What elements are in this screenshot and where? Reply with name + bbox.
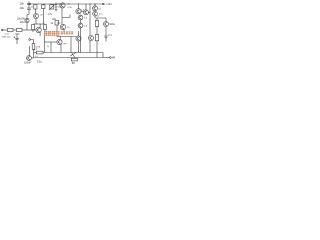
svg-text:1k: 1k	[51, 23, 54, 25]
svg-text:47u: 47u	[40, 14, 44, 16]
svg-text:R9: R9	[64, 44, 68, 46]
svg-text:100u: 100u	[109, 23, 115, 26]
svg-text:+42V: +42V	[106, 3, 112, 6]
svg-text:1k: 1k	[47, 46, 50, 48]
svg-text:4.7k: 4.7k	[48, 14, 53, 16]
svg-text:220k 10u: 220k 10u	[2, 36, 12, 38]
svg-text:0.1u: 0.1u	[37, 61, 42, 64]
svg-text:0.3u: 0.3u	[68, 7, 73, 9]
svg-text:10k: 10k	[20, 6, 25, 10]
svg-text:4.7: 4.7	[34, 49, 38, 52]
svg-text:2k: 2k	[67, 27, 70, 29]
svg-text:47u: 47u	[99, 13, 103, 15]
svg-text:0.3: 0.3	[84, 18, 88, 20]
svg-text:0.5: 0.5	[97, 16, 101, 18]
svg-text:4.7u: 4.7u	[5, 33, 10, 35]
svg-text:0.1: 0.1	[108, 34, 112, 37]
svg-text:100u: 100u	[20, 22, 26, 24]
svg-text:100k: 100k	[15, 33, 21, 35]
svg-text:8R: 8R	[72, 62, 75, 65]
svg-text:4R: 4R	[112, 56, 115, 59]
svg-text:100uF: 100uF	[24, 62, 32, 65]
svg-text:4.7: 4.7	[98, 9, 102, 11]
svg-text:10k: 10k	[20, 1, 25, 5]
svg-text:0.3: 0.3	[84, 26, 88, 28]
svg-text:10k/2W: 10k/2W	[17, 18, 26, 20]
